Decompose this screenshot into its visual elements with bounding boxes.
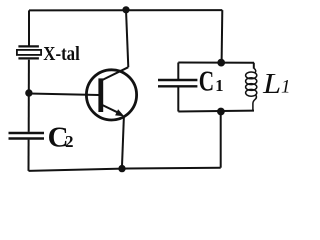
svg-text:X-tal: X-tal xyxy=(43,43,80,65)
svg-text:1: 1 xyxy=(281,77,291,98)
svg-text:L: L xyxy=(262,68,281,100)
svg-text:2: 2 xyxy=(65,132,74,151)
svg-text:C: C xyxy=(199,66,214,98)
svg-text:1: 1 xyxy=(215,76,223,95)
